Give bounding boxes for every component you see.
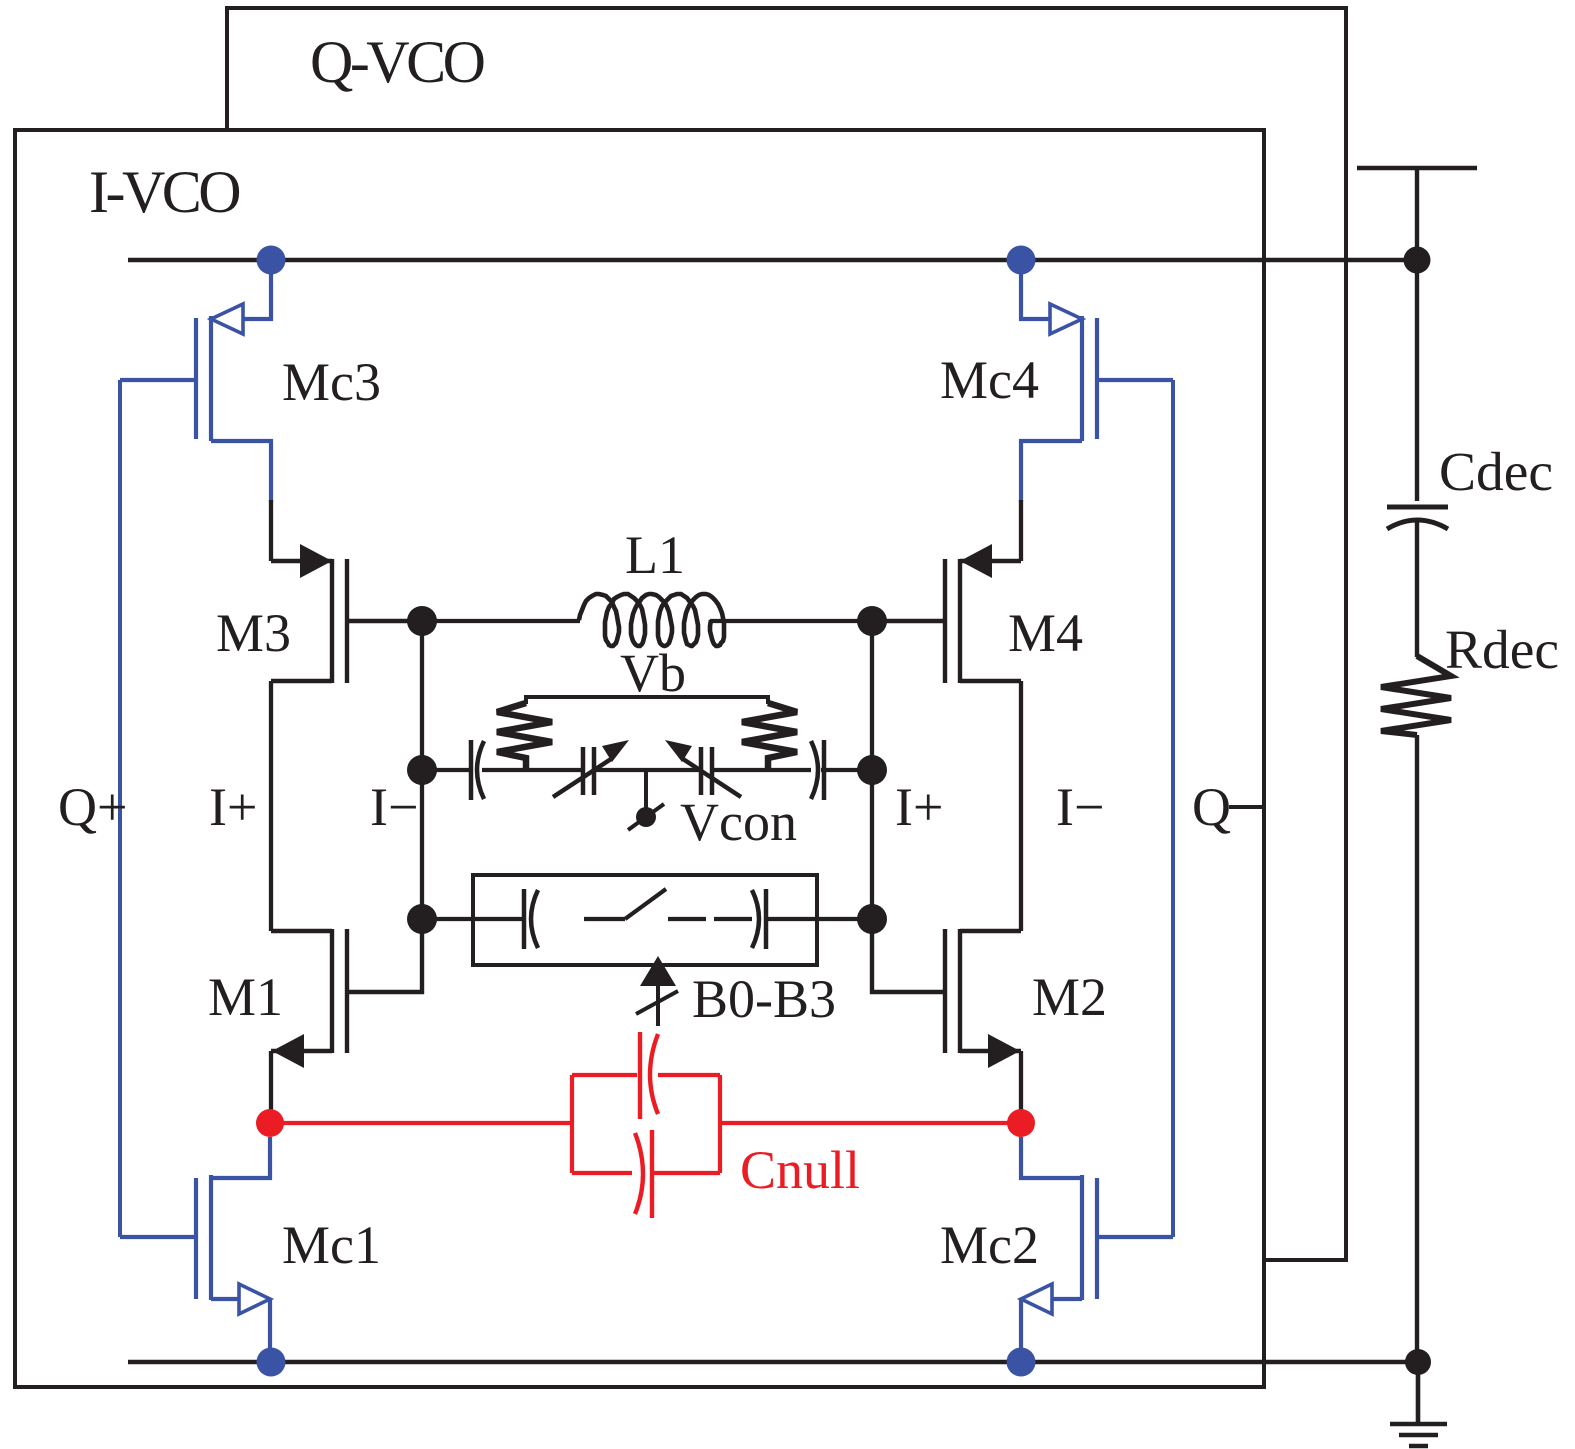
- node tank right mid: [857, 755, 887, 785]
- svg-text:M4: M4: [1008, 603, 1083, 663]
- node tank left top: [407, 606, 437, 636]
- wire top VDD rail: [128, 258, 1417, 263]
- ground: [1390, 1362, 1447, 1446]
- wire Q+ feedback line: [118, 380, 122, 1237]
- transistor Mc1: [120, 1137, 270, 1361]
- svg-text:Q-VCO: Q-VCO: [310, 29, 484, 95]
- node top-right junction: [1404, 247, 1431, 274]
- inductor L1: [579, 594, 724, 646]
- svg-text:L1: L1: [625, 525, 685, 585]
- supply terminal bar: [1357, 168, 1477, 501]
- node bottom-right junction: [1405, 1349, 1431, 1375]
- node VSS left (blue): [257, 1348, 286, 1377]
- capacitor Cnull top: [640, 1032, 658, 1119]
- svg-text:Q: Q: [1192, 777, 1231, 837]
- wire bottom rail: [128, 1360, 1418, 1365]
- wire Mc4 drain to M4: [1019, 500, 1023, 561]
- node tail right (red): [1007, 1109, 1035, 1137]
- wire Rdec to ground node: [1415, 735, 1419, 1362]
- transistor M3: [271, 559, 422, 683]
- resistor Rdec: [1381, 656, 1451, 735]
- svg-text:Mc4: Mc4: [940, 350, 1039, 410]
- capacitor Cnull bottom: [635, 1130, 652, 1218]
- wire Cnull left: [270, 1121, 572, 1125]
- varactor right: [683, 747, 741, 797]
- wire tank left column: [420, 621, 424, 919]
- box Q-VCO: [227, 8, 1346, 1260]
- transistor M2: [872, 919, 1021, 1053]
- wire Mc3 drain to M3: [269, 500, 273, 561]
- capacitor Cdec: [1387, 507, 1448, 529]
- capacitor bank left: [524, 889, 538, 949]
- svg-text:I+: I+: [209, 777, 257, 837]
- bias network Vb bracket: [526, 697, 768, 704]
- svg-text:Vcon: Vcon: [680, 792, 797, 852]
- box I-VCO: [15, 130, 1264, 1387]
- svg-text:B0-B3: B0-B3: [692, 969, 836, 1029]
- svg-text:I+: I+: [895, 777, 943, 837]
- wire tank right column: [870, 621, 874, 919]
- transistor Mc3: [120, 264, 271, 502]
- wire M1 source to tail node: [269, 1051, 273, 1123]
- node tank left bottom: [407, 904, 437, 934]
- svg-text:Vb: Vb: [620, 643, 686, 703]
- svg-text:I−: I−: [370, 777, 418, 837]
- svg-text:Mc2: Mc2: [940, 1215, 1039, 1275]
- svg-text:M1: M1: [208, 967, 283, 1027]
- wire Cdec to Rdec: [1415, 521, 1419, 657]
- svg-text:Cnull: Cnull: [740, 1140, 860, 1200]
- wire Cnull right: [720, 1121, 1021, 1125]
- varactor left: [553, 747, 611, 797]
- svg-text:M3: M3: [216, 603, 291, 663]
- node VDD left (blue): [257, 246, 286, 275]
- svg-text:Mc1: Mc1: [282, 1215, 381, 1275]
- capacitor bank right: [752, 889, 766, 949]
- wire varactor row: [422, 768, 872, 772]
- svg-text:Rdec: Rdec: [1445, 620, 1559, 681]
- node VSS right (blue): [1007, 1348, 1036, 1377]
- svg-text:Mc3: Mc3: [282, 352, 381, 412]
- wire switch row left: [422, 917, 524, 921]
- node tank left mid: [407, 755, 437, 785]
- svg-text:Q+: Q+: [58, 777, 127, 837]
- wire Q- feedback line: [1171, 380, 1175, 1237]
- svg-text:M2: M2: [1032, 967, 1107, 1027]
- switched capacitor bank box: [473, 875, 817, 965]
- wire Q- tick: [1229, 805, 1263, 809]
- resistor bias left: [497, 703, 552, 770]
- wire L1 left lead: [422, 619, 580, 623]
- wire I- rail right: [1019, 681, 1023, 931]
- capacitor Cnull loop: [572, 1075, 720, 1173]
- transistor M1: [271, 919, 422, 1053]
- transistor Mc4: [1021, 264, 1173, 502]
- capacitor series right: [811, 740, 824, 800]
- wire M2 source to tail node: [1019, 1051, 1023, 1123]
- switch lever: [584, 889, 752, 919]
- wire L1 right lead: [710, 619, 872, 623]
- svg-text:I-VCO: I-VCO: [89, 159, 239, 225]
- transistor Mc2: [1021, 1137, 1173, 1361]
- control arrow B0-B3: [640, 956, 676, 986]
- node tank right top: [857, 606, 887, 636]
- node tank right bottom: [857, 904, 887, 934]
- capacitor series left: [471, 740, 484, 800]
- svg-text:Cdec: Cdec: [1439, 442, 1553, 503]
- transistor M4: [872, 559, 1021, 683]
- svg-text:I−: I−: [1056, 777, 1104, 837]
- wire I+ rail left: [269, 681, 273, 931]
- node VDD right (blue): [1007, 246, 1036, 275]
- resistor bias right: [742, 703, 797, 770]
- wire switch row right: [766, 917, 872, 921]
- node tail left (red): [256, 1109, 284, 1137]
- terminal Vcon: [628, 770, 664, 830]
